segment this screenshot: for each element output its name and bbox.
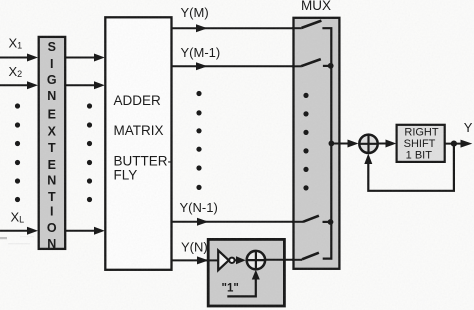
wire adder A1 to mux: [265, 259, 302, 261]
wire sign-ext to adder row3: [65, 230, 95, 232]
wire X2 input: [0, 84, 29, 86]
wire stub Y(N) into box: [207, 259, 219, 261]
wire XL input: [0, 230, 29, 232]
wire stub into mux row4: [292, 259, 302, 261]
junction row3: [328, 219, 334, 225]
block RIGHT SHIFT 1 BIT: [397, 125, 445, 162]
switch arm 3: [303, 216, 319, 222]
wire Y(M): [172, 27, 302, 29]
wire sign-ext to adder row2: [65, 84, 95, 86]
wire Y(M-1): [172, 65, 302, 67]
switch arm 1: [302, 21, 322, 28]
wire stub into mux row1: [292, 27, 302, 29]
wire mux to adder A2: [331, 143, 349, 145]
block two's-complement box (gray): [208, 239, 284, 306]
dots column left of sign-extension: [15, 103, 20, 202]
mux stub row2: [323, 65, 331, 67]
wire Y(N): [172, 259, 219, 261]
dots column between sign-extension and adder matrix: [87, 103, 92, 202]
junction row2: [328, 63, 334, 69]
wire stub into mux row2: [292, 65, 301, 67]
scan smudge left edge: [0, 237, 7, 239]
wire right shift to Y: [445, 143, 462, 145]
wire "1" to adder A1: [227, 279, 256, 296]
inverter bubble: [229, 258, 234, 263]
junction Y feedback: [451, 141, 457, 147]
wire adder A2 to right shift: [378, 143, 387, 145]
mux bus: [322, 28, 331, 258]
wire Y(N-1): [172, 221, 304, 223]
block SIGN EXTENTION: [39, 37, 65, 251]
inverter: [218, 250, 229, 270]
junction mux output: [329, 141, 335, 147]
dots column inside mux: [303, 93, 308, 191]
block ADDER MATRIX BUTTERFLY: [105, 17, 172, 269]
block MUX: [294, 18, 340, 269]
wire feedback loop: [368, 144, 454, 191]
wire inverter to adder A1: [235, 259, 238, 261]
switch arm 4: [302, 253, 319, 260]
wire X1 input: [0, 57, 29, 59]
switch arm 2: [301, 59, 321, 66]
wire sign-ext to adder row1: [65, 57, 95, 59]
wire stub into mux row3: [292, 221, 303, 223]
adder A1: [247, 251, 265, 269]
mux stub row3: [323, 221, 332, 223]
dots column between adder and mux: [196, 91, 201, 190]
adder A2: [359, 135, 377, 153]
